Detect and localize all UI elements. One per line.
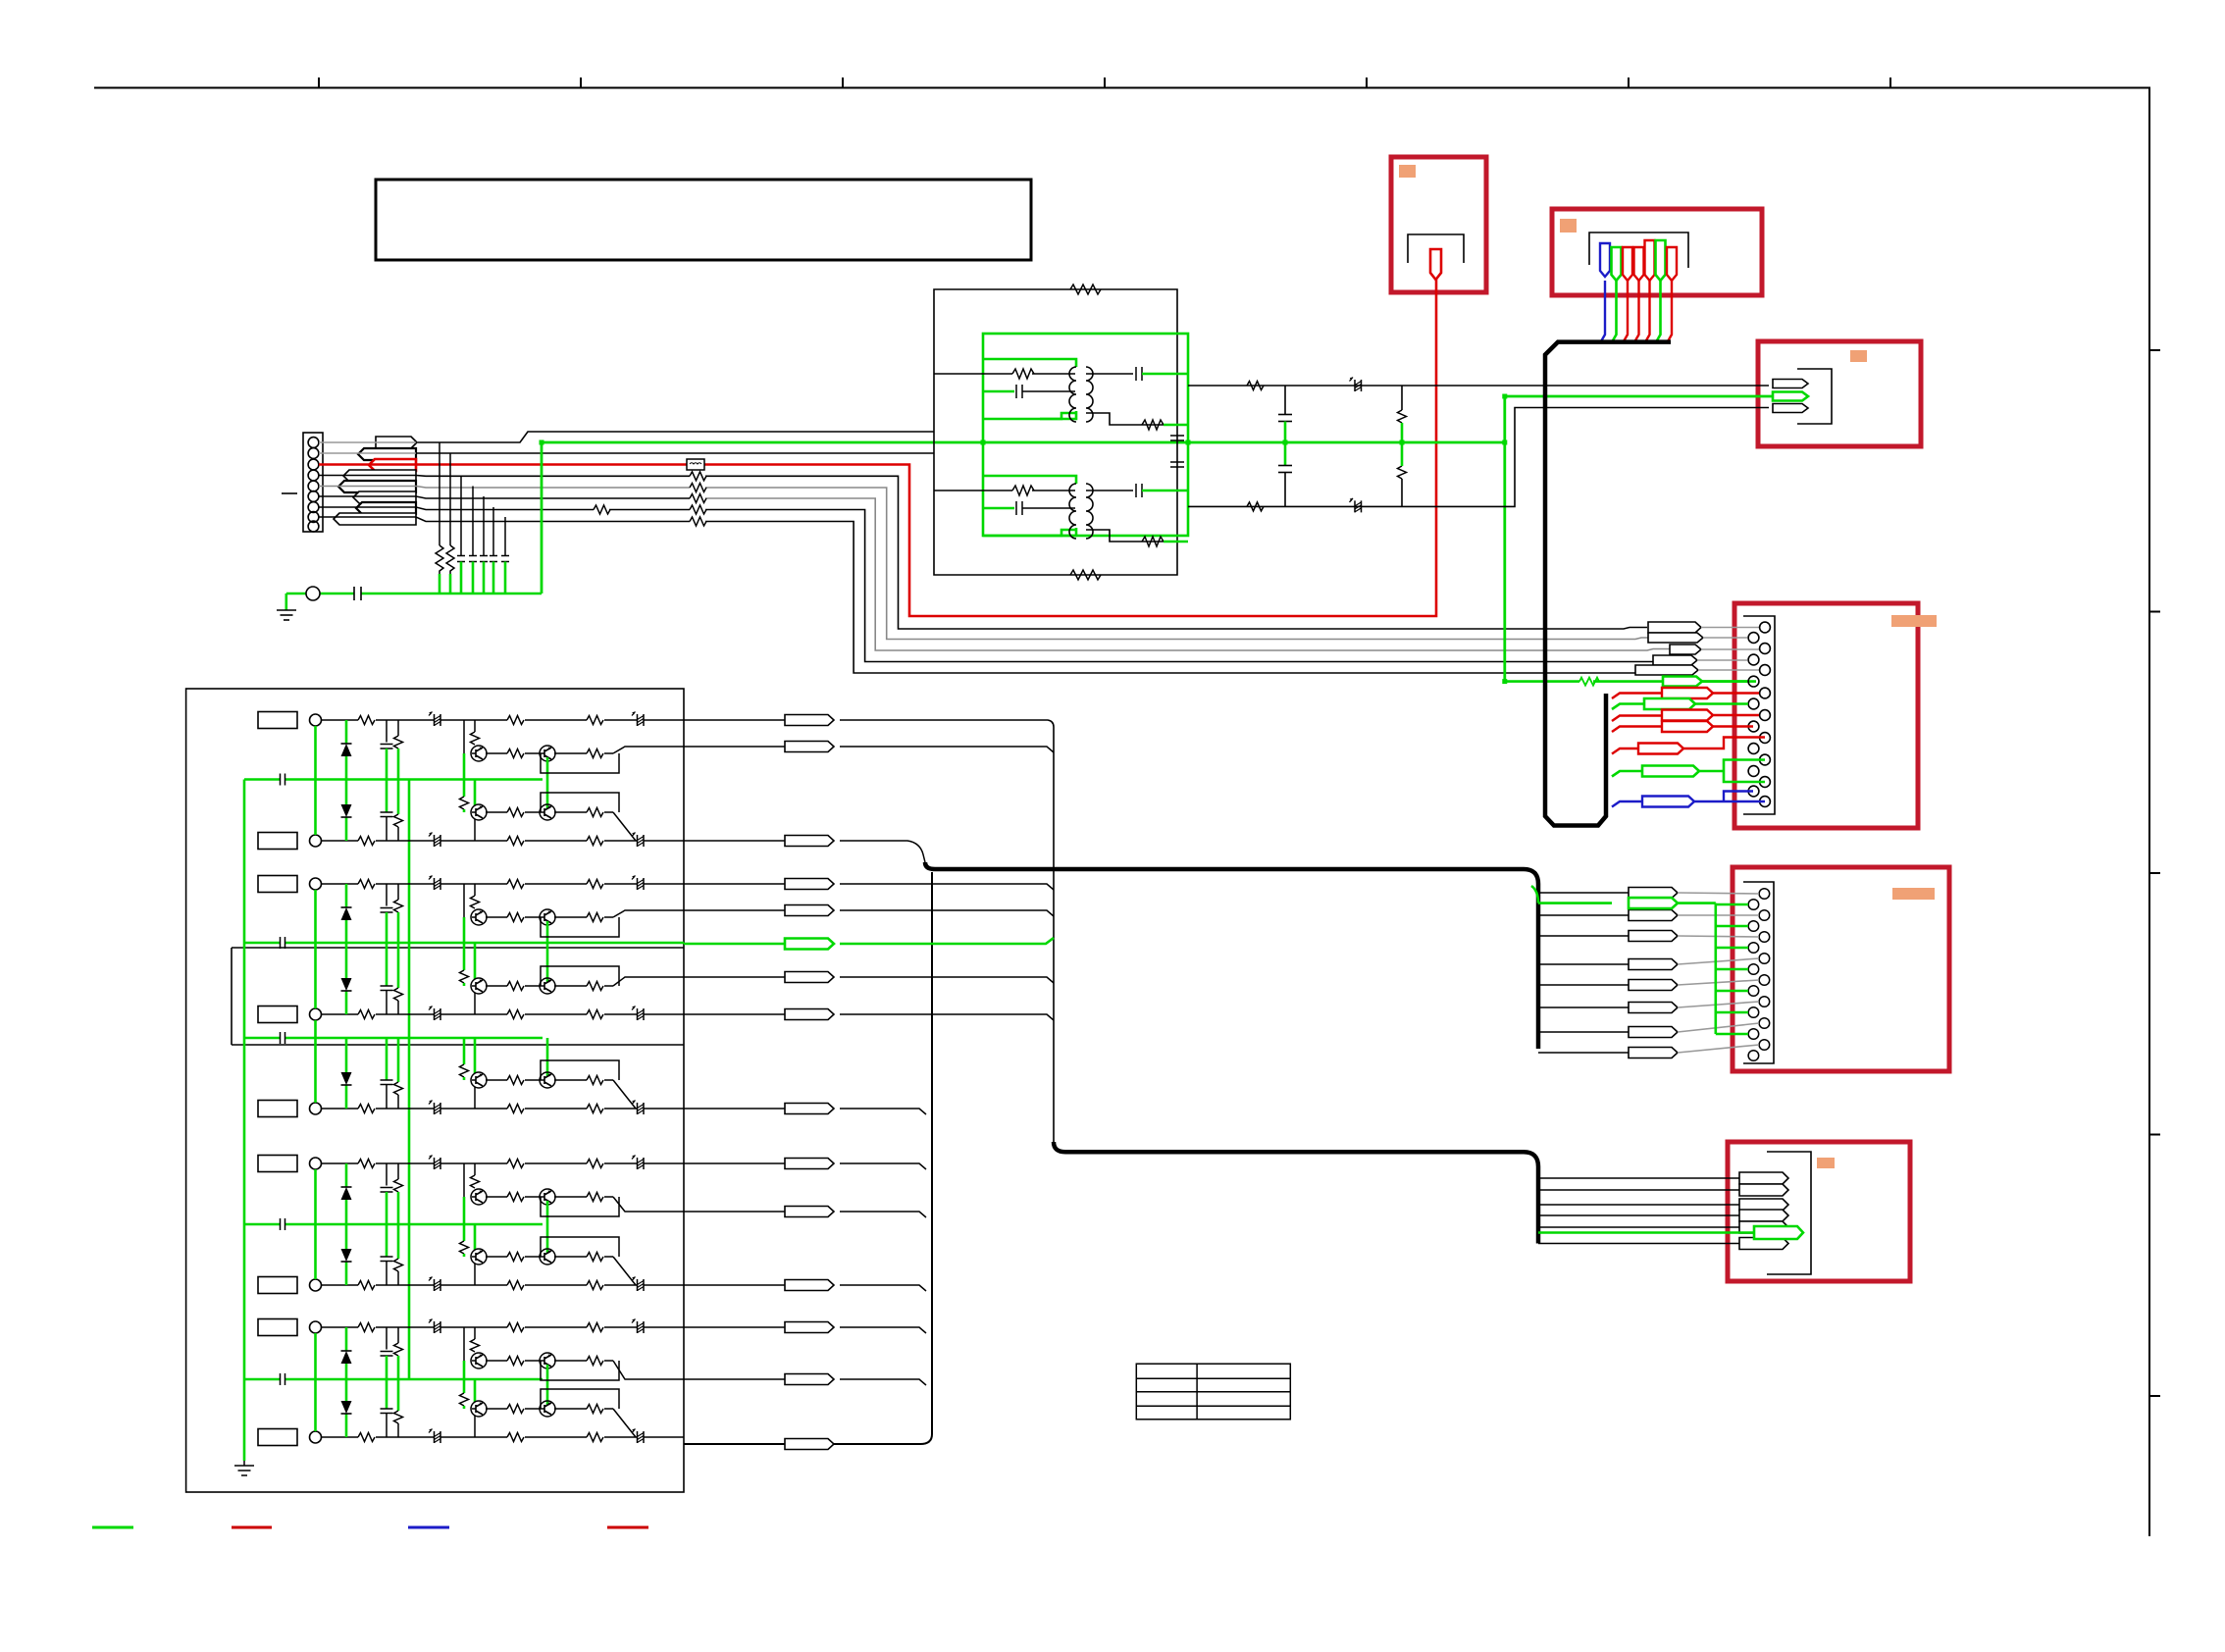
CN6 green bead: [1754, 1226, 1803, 1239]
cap drop 6: [490, 507, 497, 562]
CN2 inner bracket: [1589, 232, 1688, 268]
upper audio channel: [934, 359, 1188, 430]
CN1 red plug pin: [1430, 249, 1441, 280]
key 5 row line: [322, 1101, 685, 1115]
G3 lower diode (green column): [345, 1038, 348, 1109]
output bead 1034: [785, 1009, 834, 1020]
G1 lower trans feed green: [475, 780, 547, 809]
resistor on CN3 upper wire: [1247, 382, 1264, 390]
output bead 734: [785, 715, 834, 726]
collector bus 1 vertical: [684, 872, 932, 1444]
cable A thick run to CN5: [925, 862, 1538, 1049]
green bus long vertical x417: [408, 780, 411, 1380]
G5 lower bias resistor: [397, 1379, 400, 1411]
connector box CN3 (right, middle-upper): [1758, 341, 1921, 446]
cap drop green tail 6: [492, 562, 495, 594]
CN4 pin circles: [1748, 622, 1770, 806]
CN5 harness wire 5: [1538, 984, 1633, 986]
CN6 harness wire 4: [1538, 1214, 1739, 1216]
CN4 blue branch: [1694, 792, 1765, 802]
connector box CN5 (right, below CN4): [1733, 867, 1949, 1071]
G1 green bus wire: [244, 778, 543, 781]
CN5 bead 5: [1629, 980, 1678, 991]
wire label tag row5: [338, 481, 416, 492]
output row 901 to bus2: [684, 884, 1054, 890]
CN3 plug bottom: [1773, 404, 1808, 413]
G2 lower base green link: [463, 943, 466, 970]
key 6 row line: [322, 1156, 685, 1170]
CN5 bead 1: [1629, 888, 1678, 899]
output row 1034 to bus2: [684, 1014, 1054, 1020]
CN5 green stub 7: [1716, 1033, 1748, 1036]
CN5 harness wire 3: [1538, 935, 1633, 937]
CN6 orange label: [1817, 1158, 1835, 1168]
G4 lower collector loop: [541, 1237, 619, 1257]
RC drop resistor 1: [436, 545, 443, 574]
CN4 green tail 2: [1695, 702, 1748, 705]
key 5 cap and jack: [258, 1101, 322, 1117]
output row 996 to bus2: [684, 977, 1054, 983]
connector box CN1 (top right small): [1391, 157, 1486, 292]
secondary top wire: [1086, 373, 1133, 375]
green tail to CN4: [1702, 680, 1747, 683]
G2 lower trans feed green: [475, 943, 547, 982]
CN6 harness wire 2: [1538, 1189, 1739, 1191]
CN5 green stub 2: [1716, 925, 1748, 928]
G1 lower collector loop: [541, 793, 619, 812]
output row 1130 to bus1: [684, 1109, 926, 1114]
CN4 green branch: [1699, 760, 1765, 783]
G1 upper coupling cap: [386, 720, 388, 743]
G4 lower trans feed green: [475, 1224, 547, 1253]
load resistor: [1142, 420, 1164, 430]
green output row 962: [684, 938, 1054, 944]
CN1 orange label: [1399, 165, 1416, 178]
G2 upper base link: [463, 884, 465, 917]
G1 bus capacitor: [281, 774, 285, 786]
legend red wire sample 2: [607, 1526, 648, 1529]
G1 upper base link: [463, 720, 465, 753]
CN5 gray tail 7: [1678, 1023, 1759, 1032]
key 6 cap and jack: [258, 1156, 322, 1172]
G5 upper base resistor: [474, 1327, 476, 1339]
key 2 row line: [322, 833, 685, 848]
CN6 green harness wire: [1538, 1231, 1754, 1234]
transformer loop outer wire: [934, 289, 1177, 575]
green jack column link 5: [314, 1333, 317, 1431]
CN2 pin 6 (green tall): [1656, 240, 1666, 281]
wire to CN3 lower plug with jog: [1188, 408, 1769, 507]
CN5 orange label: [1892, 888, 1935, 900]
G4 lower diode (green column): [345, 1224, 348, 1285]
G4 lower bias resistor: [397, 1224, 400, 1259]
CN5 harness wire 8: [1538, 1052, 1633, 1054]
ground stem: [285, 594, 287, 610]
G2 lower collector link: [474, 993, 476, 1014]
CN6 bead 5: [1739, 1221, 1788, 1233]
CN5 green harness wire: [1531, 886, 1612, 903]
G2 upper base resistor: [474, 884, 476, 896]
green jack column link 3: [314, 1020, 317, 1103]
output row 928 to bus2: [684, 910, 1054, 916]
G5 upper base link: [463, 1327, 465, 1361]
resistor on CN3 lower wire: [1247, 502, 1264, 511]
connector box CN2 (top, wide): [1552, 209, 1762, 295]
green link upper cap to main: [1284, 422, 1287, 443]
G2 bus capacitor: [281, 937, 285, 949]
green wire to CN4 with resistor: [1505, 680, 1756, 683]
CN2 pigtail wire blue: [1601, 281, 1605, 341]
ground bus jack circle: [306, 587, 320, 600]
CN5 bead 7: [1629, 1027, 1678, 1038]
CN4 inner bracket: [1743, 616, 1775, 814]
G4 green bus wire: [244, 1223, 543, 1226]
G4 upper base link: [463, 1163, 465, 1197]
G1 lower transistor pair line: [471, 804, 613, 820]
CN5 green stub 6: [1716, 1011, 1748, 1014]
legend green wire sample: [92, 1526, 133, 1529]
cap drop green tail 4: [472, 562, 475, 594]
series resistor row6: [690, 494, 706, 503]
green output bead 962: [785, 939, 834, 950]
G5 lower collector link: [474, 1416, 476, 1437]
CN5 green stub 1: [1716, 903, 1748, 906]
G2 lower bias resistor: [397, 943, 400, 988]
G3 green bus wire: [244, 1037, 543, 1040]
CN5 harness wire 2: [1538, 914, 1633, 916]
G2 lower collector loop: [541, 966, 619, 986]
CN6 inner bracket: [1767, 1152, 1811, 1274]
key 1 cap and jack: [258, 712, 322, 729]
G2 lower diode (green column): [345, 943, 348, 1014]
CN6 harness wire 1: [1538, 1177, 1739, 1179]
G2 upper bias resistor: [397, 884, 399, 900]
output bead 1353: [785, 1322, 834, 1333]
key 3 row line: [322, 876, 685, 891]
frame tick marks right: [2149, 350, 2160, 1396]
G5 upper collector loop: [541, 1361, 619, 1380]
cap drop 5: [480, 496, 488, 562]
key 9 cap and jack: [258, 1429, 322, 1446]
CN5 bead 4: [1629, 959, 1678, 970]
matrix ground symbol: [234, 1461, 254, 1475]
transistor lower output jog: [613, 812, 636, 841]
CN2 pigtail wire red1: [1624, 281, 1628, 341]
transistor lower output jog: [613, 1080, 636, 1109]
G1 upper diode (green column): [345, 720, 348, 780]
CN4 green wire 2: [1612, 704, 1644, 710]
CN5 bead 6: [1629, 1003, 1678, 1013]
transistor output jog: [613, 910, 684, 917]
CN4 orange label: [1891, 615, 1937, 627]
cap drop green tail 5: [483, 562, 486, 594]
G3 lower transistor pair line: [471, 1072, 613, 1088]
CN4 green bead 6: [1642, 766, 1699, 777]
green link main to lower cap: [1284, 442, 1287, 466]
wire label tag row6: [353, 491, 416, 503]
G5 lower collector loop: [541, 1389, 619, 1409]
G1 lower coupling cap: [386, 780, 388, 813]
CN5 bead 3: [1629, 931, 1678, 942]
capacitor at x1310 lower: [1278, 466, 1292, 507]
transistor output jog: [613, 1197, 684, 1212]
G1 lower bias resistor: [397, 780, 400, 815]
G2 upper coupling cap: [386, 884, 388, 906]
CN4 blue wire 7: [1612, 801, 1642, 807]
CN5 gray tail 8: [1678, 1045, 1759, 1053]
wire row8: [319, 517, 1694, 673]
wire row6: [319, 496, 690, 498]
G4 bus capacitor: [281, 1218, 285, 1230]
key 4 cap and jack: [258, 1007, 322, 1023]
green wire to CN3: [1505, 395, 1773, 398]
secondary bottom wire: [1086, 413, 1177, 425]
series resistor row4: [690, 472, 706, 481]
CN2 pigtail wire green1: [1613, 281, 1617, 341]
frame tick marks top: [319, 77, 1890, 87]
G4 upper bias resistor: [397, 1163, 399, 1179]
CN5 harness wire 6: [1538, 1007, 1633, 1008]
CN5 green stub 3: [1716, 947, 1748, 950]
CN2 pin 5 (red tall): [1645, 240, 1655, 281]
series resistor row7b: [690, 505, 706, 514]
wire row2: [319, 452, 416, 454]
output row 734 to bus2 (top): [684, 720, 1054, 1144]
CN2 pin 2 (green): [1612, 247, 1622, 281]
lower audio channel (mirror copy): [934, 476, 1188, 546]
G5 lower coupling cap: [386, 1379, 388, 1409]
CN5 green stub 5: [1716, 990, 1748, 993]
wire row4: [319, 476, 1647, 630]
CN4 red tail 5: [1683, 738, 1765, 749]
G3 lower collector link: [474, 1087, 476, 1109]
resistor lower at x1429: [1398, 466, 1407, 479]
green jack column link 1: [314, 726, 317, 835]
green jack column link 4: [314, 1169, 317, 1279]
G1 lower collector link: [474, 819, 476, 841]
matrix inner partition left edge: [231, 948, 233, 1045]
CN5 bead 8: [1629, 1048, 1678, 1058]
CN2 pin 1 (blue): [1600, 243, 1610, 277]
green jog to winding bottom: [1040, 413, 1075, 419]
CN5 bead 2: [1629, 910, 1678, 921]
CN4 red tail 3: [1713, 714, 1759, 716]
output capacitor: [1136, 367, 1142, 381]
G4 upper transistor pair line: [471, 1189, 613, 1205]
transistor lower output jog: [613, 1409, 636, 1437]
wire row7: [319, 507, 1682, 662]
resistor on loop top: [1070, 284, 1101, 294]
CN6 harness wire 3: [1538, 1204, 1739, 1206]
bead bundle row5: [1635, 665, 1698, 675]
CN4 red wire 5 (jogged): [1612, 749, 1638, 754]
channel input resistor: [1012, 369, 1034, 379]
bead bundle row3: [1670, 645, 1701, 654]
key 7 row line: [322, 1277, 685, 1292]
G5 upper transistor pair line: [471, 1353, 613, 1368]
CN5 pin circles: [1748, 889, 1770, 1061]
cap drop green tail 3: [460, 562, 463, 594]
CN4 red tail 1: [1713, 692, 1759, 694]
output row 1353 to bus1: [684, 1327, 926, 1333]
wire row1 from pin to riser: [319, 441, 416, 443]
CN2 pin 4 (red): [1634, 247, 1644, 281]
CN4 red wire 4: [1612, 727, 1662, 733]
transistor output jog: [613, 747, 684, 753]
legend red wire sample: [232, 1526, 272, 1529]
CN5 inner bracket: [1743, 882, 1774, 1063]
G2 upper diode (green column): [345, 884, 348, 943]
output bead 1130: [785, 1104, 834, 1114]
RC drop green tail 2: [449, 574, 452, 594]
resistor pair vertical wire: [1401, 386, 1403, 506]
wire label tag row7: [356, 502, 416, 514]
green wire resistor to box edge: [1164, 424, 1188, 427]
varistor symbol upper line: [1350, 378, 1362, 392]
output bead 761: [785, 742, 834, 752]
ground bus green wire: [286, 593, 542, 595]
green junction dots on main: [540, 394, 1508, 685]
CN5 gray tail 2: [1678, 914, 1759, 916]
G1 lower diode (green column): [345, 780, 348, 842]
bead bundle row4: [1653, 655, 1697, 665]
CN2 pigtail wire red2: [1635, 281, 1639, 341]
cap drop 3: [457, 476, 465, 562]
transformer primary winding: [1069, 367, 1076, 422]
output bead 857: [785, 836, 834, 847]
CN5 green distribution vertical: [1678, 903, 1716, 1034]
ferrite bead on red wire: [687, 459, 704, 470]
cap drop green tail 7: [504, 562, 507, 594]
cap drop 4: [469, 487, 477, 562]
row 857 feed into cable A: [684, 841, 925, 862]
key 8 row line: [322, 1319, 685, 1334]
matrix inner partition upper: [232, 947, 684, 949]
CN2 pin 7 (red): [1667, 247, 1677, 281]
CN5 harness wire 1: [1538, 892, 1633, 894]
CN4 red wire 1: [1612, 694, 1662, 699]
green ground rail vertical (left): [243, 780, 246, 1462]
legend blue wire sample: [408, 1526, 449, 1529]
G4 upper base resistor: [474, 1163, 476, 1175]
CN6 harness wire 5: [1538, 1226, 1739, 1228]
channel input wire: [934, 373, 1075, 375]
G4 upper green links to bus: [464, 1197, 547, 1224]
G4 lower transistor pair line: [471, 1249, 613, 1265]
connector box CN4 (right large): [1734, 603, 1918, 828]
G3 lower collector loop: [541, 1060, 619, 1080]
CN4 red bead 5: [1638, 744, 1683, 754]
CN4 green bead 2: [1644, 698, 1695, 709]
G2 green bus wire: [244, 942, 684, 945]
G5 bus capacitor: [281, 1373, 285, 1385]
CN2 pin 3 (red): [1623, 247, 1632, 281]
G5 upper green links to bus: [464, 1361, 547, 1379]
cap drop 7: [501, 517, 509, 562]
G3 lower base green link: [463, 1038, 466, 1064]
ground bus series capacitor: [354, 587, 361, 600]
transistor lower output jog: [613, 1257, 636, 1285]
output bead 1472: [785, 1439, 834, 1450]
CN6 bead 2: [1739, 1184, 1788, 1196]
resistor on green CN4 wire: [1579, 678, 1599, 686]
CN5 green stub 4: [1716, 968, 1748, 971]
G4 lower coupling cap: [386, 1224, 388, 1257]
output bead 996: [785, 972, 834, 983]
CN4 blue bead 7: [1642, 797, 1694, 807]
CN5 gray tail 4: [1678, 958, 1759, 964]
transistor output jog: [613, 1361, 684, 1379]
green jack column link 2: [314, 890, 317, 1008]
green bracket bottom: [983, 411, 1076, 419]
G4 upper coupling cap: [386, 1163, 388, 1186]
bead bundle row1: [1648, 622, 1701, 633]
RC drop vertical 2: [449, 453, 451, 545]
RC drop resistor 2: [446, 545, 454, 574]
varistor symbol lower line: [1350, 498, 1362, 513]
CN5 harness wire 4: [1538, 963, 1633, 965]
green vertical to CN3/CN4 levels: [1503, 396, 1506, 682]
CN4 red wire 3: [1612, 716, 1662, 722]
G4 upper collector loop: [541, 1197, 619, 1216]
G1 upper transistor pair line: [471, 746, 613, 761]
bead bundle row2: [1648, 633, 1703, 643]
CN6 harness wire 6: [1538, 1243, 1739, 1245]
green main riser: [541, 442, 543, 594]
output row 1413 to bus1: [684, 1379, 926, 1385]
G2 lower coupling cap: [386, 943, 388, 986]
G5 upper coupling cap: [386, 1327, 388, 1350]
wire label tag row3 (red): [369, 459, 416, 471]
resistor on loop bottom: [1070, 570, 1101, 580]
transistor lower output jog: [613, 977, 684, 986]
inter-channel capacitor upper: [1170, 436, 1184, 440]
CN5 gray tail 5: [1678, 980, 1759, 985]
CN2 orange label: [1560, 219, 1577, 232]
CN4 red bead 4: [1662, 721, 1713, 732]
CN4 red tail 4: [1713, 725, 1753, 727]
key 8 cap and jack: [258, 1319, 322, 1336]
key 9 row line: [322, 1429, 685, 1444]
G5 lower diode (green column): [345, 1379, 348, 1437]
G1 upper bias resistor: [397, 720, 399, 736]
key 2 cap and jack: [258, 833, 322, 850]
output row 1310 to bus1: [684, 1285, 926, 1291]
green screen box around transformers: [983, 334, 1188, 536]
resistor upper at x1429: [1398, 410, 1407, 423]
G4 lower collector link: [474, 1264, 476, 1285]
output bead 1413: [785, 1374, 834, 1385]
wire label tag row2: [358, 448, 416, 460]
G2 upper collector loop: [541, 917, 619, 937]
G2 upper transistor pair line: [471, 909, 613, 925]
output bead 928: [785, 905, 834, 916]
CN2 cable run to chassis: [1545, 342, 1671, 826]
CN5 gray tail 1: [1678, 893, 1759, 894]
CN2 pigtail wire green2: [1657, 281, 1661, 341]
inter-channel capacitor lower: [1170, 462, 1184, 467]
G3 lower bias resistor: [397, 1038, 400, 1082]
polarity dash marker: [282, 492, 297, 494]
parts table: [1136, 1364, 1290, 1420]
G1 upper base resistor: [474, 720, 476, 732]
G4 upper diode (green column): [345, 1163, 348, 1224]
CN4 red bead 1: [1662, 688, 1713, 698]
wire label tag row8: [334, 513, 416, 525]
left connector CN0 body: [303, 433, 323, 532]
key 3 cap and jack: [258, 876, 322, 893]
G1 upper collector loop: [541, 753, 619, 773]
